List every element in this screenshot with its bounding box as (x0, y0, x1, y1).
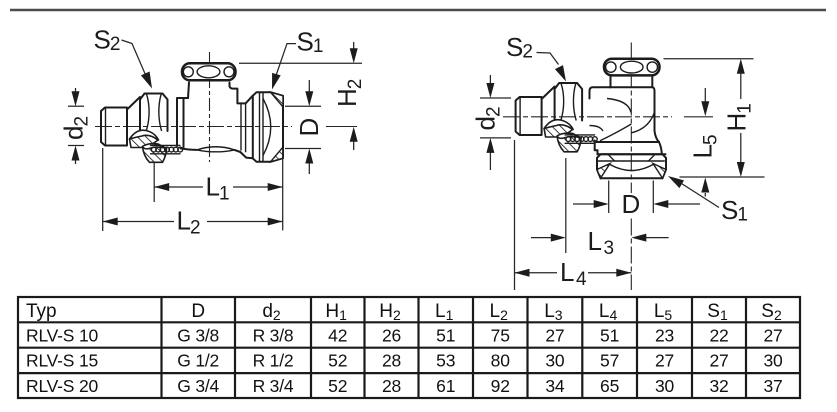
L1 dimension (154, 162, 283, 205)
dimensions table (18, 297, 800, 398)
svg-text:RLV-S 20: RLV-S 20 (26, 376, 98, 396)
union nut S1 (253, 92, 283, 162)
table row RLV-S 15 (26, 351, 783, 371)
flange (595, 141, 662, 155)
svg-text:26: 26 (382, 325, 401, 345)
svg-text:27: 27 (763, 325, 782, 345)
svg-text:G 3/8: G 3/8 (177, 325, 219, 345)
D dimension (285, 80, 324, 174)
body waist lens (197, 147, 235, 152)
angle valve drawing (471, 32, 765, 290)
svg-text:R 3/4: R 3/4 (253, 376, 294, 396)
bonnet neck (610, 76, 653, 88)
vertical axis centerline (630, 43, 632, 194)
svg-text:30: 30 (545, 351, 565, 371)
svg-text:61: 61 (436, 376, 455, 396)
S2 leader right (537, 53, 559, 65)
svg-text:52: 52 (328, 376, 347, 396)
L5 dimension (688, 88, 722, 197)
svg-text:D: D (294, 119, 324, 137)
svg-text:R 1/2: R 1/2 (253, 351, 294, 371)
H2 dimension (239, 42, 366, 150)
thread dot band (150, 145, 181, 153)
svg-text:75: 75 (491, 325, 510, 345)
L4 dimension (515, 140, 632, 290)
svg-text:42: 42 (328, 325, 347, 345)
hatched compression band (130, 132, 159, 148)
inlet assembly reuse (516, 83, 598, 152)
svg-text:Typ: Typ (26, 301, 57, 322)
svg-text:G 3/4: G 3/4 (177, 376, 219, 396)
svg-text:65: 65 (600, 376, 619, 396)
svg-text:32: 32 (709, 376, 728, 396)
vertical centerline of bonnet (209, 52, 211, 162)
table row RLV-S 10 (26, 325, 783, 345)
body internal fillets (607, 99, 631, 113)
svg-text:28: 28 (382, 376, 401, 396)
S2 leader (122, 40, 148, 80)
svg-text:23: 23 (655, 325, 674, 345)
H1 dimension (664, 59, 765, 177)
protective cap (182, 63, 236, 80)
svg-text:RLV-S 15: RLV-S 15 (26, 351, 98, 371)
male thread tailpiece d2 (101, 94, 183, 163)
svg-text:57: 57 (600, 351, 619, 371)
svg-text:34: 34 (545, 376, 565, 396)
lower hatched nut section (143, 144, 167, 163)
svg-text:D: D (191, 301, 205, 322)
centerline extension toward L5 (684, 116, 713, 118)
valve body (177, 98, 253, 158)
top rule (10, 9, 826, 11)
chamfer hatches (271, 92, 284, 107)
d2 dimension right (471, 75, 512, 170)
svg-text:30: 30 (763, 351, 783, 371)
hex nut S2 (140, 94, 168, 134)
L2 dimension (103, 148, 283, 239)
horizontal centerline (503, 116, 672, 118)
cone into nut (127, 97, 140, 110)
svg-text:22: 22 (709, 325, 728, 345)
svg-text:30: 30 (655, 376, 675, 396)
white dome above band (130, 130, 159, 140)
svg-text:80: 80 (491, 351, 511, 371)
svg-text:27: 27 (545, 325, 564, 345)
protective cap right (604, 59, 660, 76)
svg-text:RLV-S 10: RLV-S 10 (26, 325, 98, 345)
svg-text:92: 92 (491, 376, 510, 396)
horizontal centerline (95, 126, 292, 128)
svg-text:R 3/8: R 3/8 (253, 325, 294, 345)
L3 dimension (531, 158, 669, 259)
svg-text:51: 51 (436, 325, 455, 345)
S1 leader right (682, 184, 720, 208)
d2 dimension (59, 88, 93, 164)
body boss and outlet cylinder (230, 86, 253, 103)
D dimension right (573, 181, 700, 220)
union nut S1 bottom (597, 154, 666, 178)
bonnet neck (188, 83, 230, 99)
S1 leader (276, 44, 297, 77)
svg-text:28: 28 (382, 351, 401, 371)
straight valve drawing (59, 25, 367, 239)
centerline extension toward H2 (326, 126, 357, 128)
svg-text:53: 53 (436, 351, 455, 371)
svg-text:51: 51 (600, 325, 619, 345)
svg-text:37: 37 (763, 376, 782, 396)
svg-text:52: 52 (328, 351, 347, 371)
svg-text:G 1/2: G 1/2 (177, 351, 219, 371)
table row RLV-S 20 (26, 376, 783, 396)
svg-text:27: 27 (655, 351, 674, 371)
svg-text:27: 27 (709, 351, 728, 371)
angle valve body (590, 87, 660, 142)
svg-text:D: D (622, 189, 640, 219)
